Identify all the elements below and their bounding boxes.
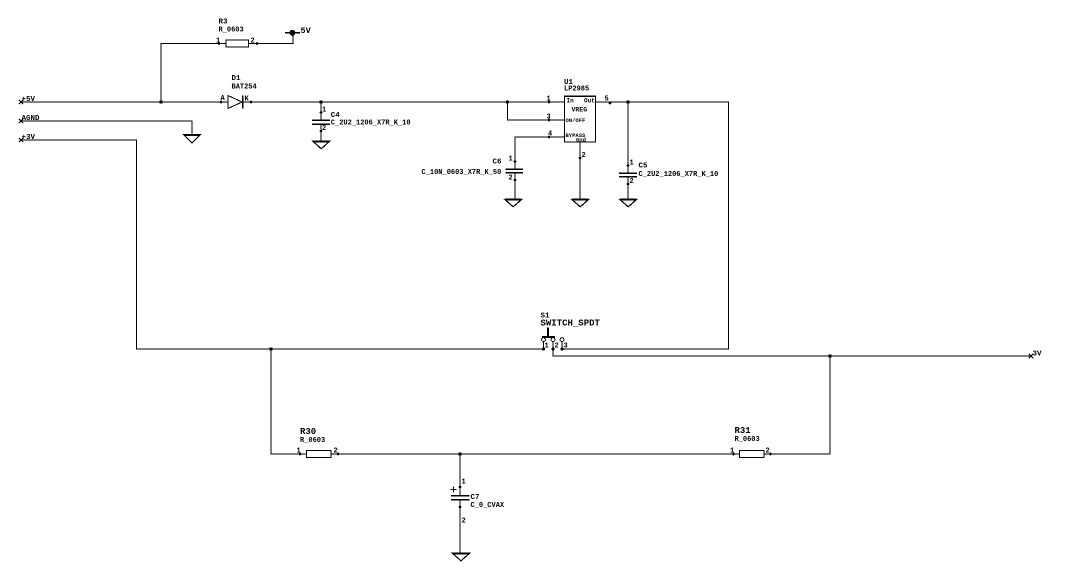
wire switch pin1 stub [543,342,545,350]
wire U1 pin4 to C6 [515,137,565,169]
switch S1 SWITCH_SPDT [541,313,601,351]
node junction C7 [458,452,461,455]
node junction C4/+5V [319,100,322,103]
capacitor C4 [312,107,411,134]
ground C6 [505,200,522,207]
svg-text:5: 5 [605,96,609,104]
svg-text:1: 1 [547,96,551,104]
pin 4 [548,136,551,139]
wire C5 branch [627,102,629,173]
svg-text:BAT254: BAT254 [232,84,257,92]
port 3V [1029,351,1042,359]
port +5V [19,96,36,104]
ground C7 [453,553,470,561]
wire +5V net horizontal [21,101,228,103]
resistor R31 [730,426,772,457]
wire U1 pin3 from IN net [508,102,565,120]
wire C7 branch [459,454,461,496]
svg-text:C_0_CVAX: C_0_CVAX [471,502,505,510]
svg-text:C_2U2_1206_X7R_K_10: C_2U2_1206_X7R_K_10 [331,120,411,128]
capacitor C5 [619,160,718,187]
node junction 3V/R31 [828,354,831,357]
wire R30 to R31 [331,453,740,455]
node junction pin3 tap [506,100,509,103]
pin 1 [548,101,551,104]
wire AGND [21,121,192,135]
pin 5 [609,102,612,105]
wire C4 branch [320,102,322,120]
svg-text:C_10N_0603_X7R_K_50: C_10N_0603_X7R_K_50 [422,169,502,177]
wire U1 pin2 to ground [579,142,581,200]
svg-text:VREG: VREG [572,107,588,114]
svg-text:R_0603: R_0603 [300,437,325,445]
power flag 5V [285,26,312,36]
ground AGND [184,135,200,143]
svg-text:3: 3 [564,343,568,351]
svg-text:Out: Out [584,98,595,105]
port +3V [19,134,36,142]
wire +3V vertical run to switch [21,140,544,349]
svg-text:In: In [567,98,575,105]
svg-text:2: 2 [509,175,513,183]
svg-text:1: 1 [545,343,549,351]
svg-text:2: 2 [334,448,338,456]
svg-text:2: 2 [251,38,255,46]
svg-text:C6: C6 [493,159,503,167]
svg-text:2: 2 [630,178,634,186]
svg-text:R3: R3 [219,19,229,27]
svg-text:1: 1 [630,160,634,168]
svg-text:2: 2 [766,448,770,456]
op-amp U1 LP2985 regulator box [547,79,612,160]
capacitor C6 [422,156,524,183]
pin 3 [548,119,551,122]
wire R30 branch from +3V [271,349,307,454]
svg-text:1: 1 [216,38,220,46]
svg-text:R_0603: R_0603 [735,436,760,444]
resistor R30 [297,427,340,457]
node junction C5/OUT [626,100,629,103]
port AGND [19,115,40,123]
svg-text:ON/OFF: ON/OFF [566,117,586,124]
svg-text:C7: C7 [471,494,480,502]
pin 2 [579,157,582,160]
diode D1 BAT254 [220,75,257,109]
wire switch pin2 stub and 3V run [553,342,1031,357]
svg-text:3: 3 [547,114,551,122]
svg-text:3V: 3V [1033,351,1043,359]
svg-text:R_0603: R_0603 [219,27,244,35]
svg-text:1: 1 [297,448,301,456]
ground C5 [620,200,637,207]
svg-text:R31: R31 [735,426,752,436]
svg-text:5V: 5V [301,26,312,36]
wire R3 branch [161,44,226,103]
svg-text:+5V: +5V [22,96,36,104]
svg-text:AGND: AGND [22,115,41,123]
node junction +3V/R30 [269,347,272,350]
svg-text:2: 2 [462,518,466,526]
svg-text:1: 1 [322,107,326,115]
capacitor C7 polarized [451,479,505,526]
svg-text:Gnd: Gnd [576,137,586,144]
svg-text:1: 1 [730,448,734,456]
svg-text:2: 2 [555,343,559,351]
svg-text:SWITCH_SPDT: SWITCH_SPDT [541,319,601,329]
wire 3V net down to R31 [764,356,830,454]
svg-text:+3V: +3V [22,134,36,142]
svg-text:D1: D1 [232,75,242,83]
node junction R3/+5V [159,100,162,103]
svg-text:C_2U2_1206_X7R_K_10: C_2U2_1206_X7R_K_10 [639,171,719,179]
wire OUT net down to switch pin3 [562,102,729,349]
svg-text:1: 1 [509,156,513,164]
svg-text:C5: C5 [639,163,649,171]
svg-text:R30: R30 [300,427,316,437]
svg-text:LP2985: LP2985 [564,86,589,94]
resistor R3 [216,19,258,47]
svg-text:2: 2 [582,152,586,160]
svg-text:1: 1 [462,479,466,487]
ground U1 [572,200,589,207]
svg-text:2: 2 [322,125,326,133]
wire switch pin3 stub [561,342,563,350]
svg-text:4: 4 [548,131,552,139]
wire C6 to ground [514,173,516,200]
ground C4 [313,141,330,149]
